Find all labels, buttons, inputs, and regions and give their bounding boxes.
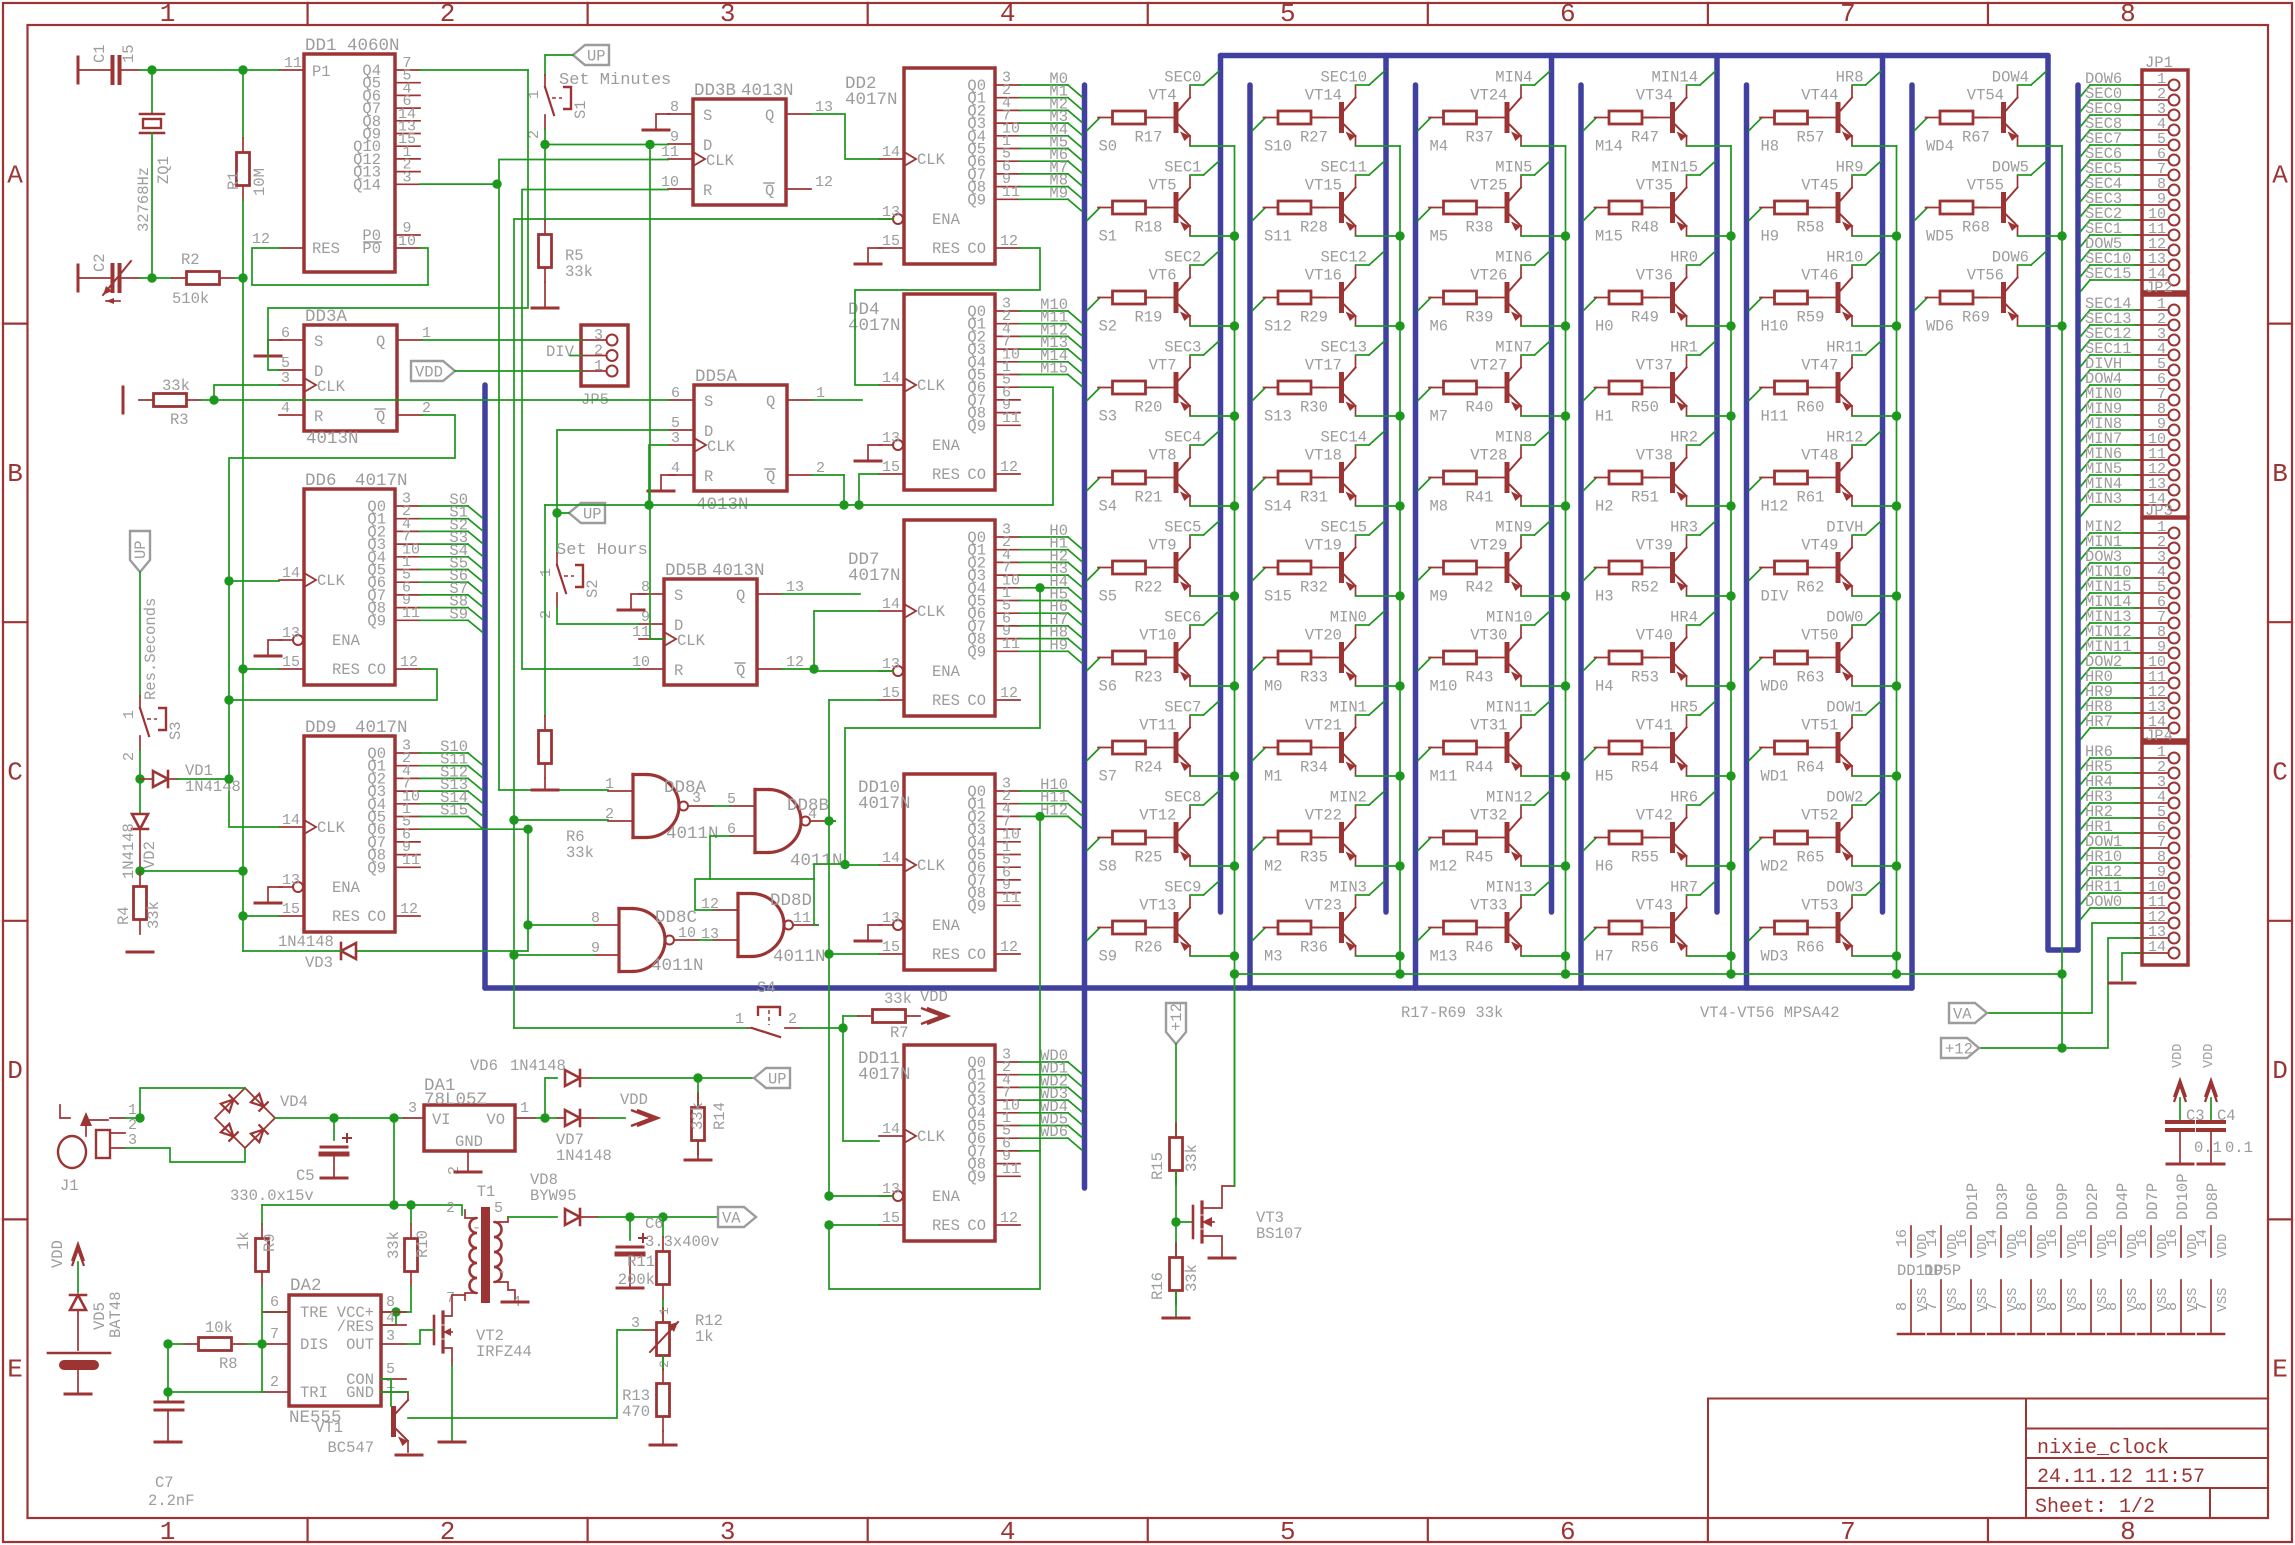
wire S4 pin1 to ENA rail bbox=[514, 1027, 747, 1029]
svg-text:R69: R69 bbox=[1962, 309, 1990, 327]
frame row label D left bbox=[3, 920, 28, 922]
junction on emitter rail column 3 row 3 bbox=[1561, 411, 1570, 420]
junction on emitter rail column 5 row 3 bbox=[1892, 411, 1901, 420]
bus vertical collector column 3 bbox=[1549, 56, 1555, 913]
svg-text:2: 2 bbox=[270, 1374, 279, 1391]
NAND gate DD8D 4011N bbox=[701, 891, 826, 967]
svg-text:VI: VI bbox=[432, 1111, 451, 1129]
svg-text:1: 1 bbox=[121, 710, 138, 719]
transistor VT1 BC547 bbox=[315, 1392, 408, 1457]
ground at DD2 RES pin bbox=[868, 248, 882, 262]
svg-text:R: R bbox=[314, 408, 323, 426]
svg-text:S3: S3 bbox=[1099, 408, 1118, 426]
svg-text:4011N: 4011N bbox=[773, 947, 826, 967]
transistor cell MIN7: resistor R40, transistor VT27, base net M7 bbox=[1418, 339, 1566, 426]
wire R16 to ground bbox=[1175, 1292, 1177, 1316]
svg-text:VT22: VT22 bbox=[1305, 807, 1342, 825]
svg-text:VT47: VT47 bbox=[1801, 357, 1838, 375]
svg-text:4017N: 4017N bbox=[355, 718, 408, 738]
svg-text:R26: R26 bbox=[1135, 939, 1163, 957]
svg-text:13: 13 bbox=[882, 430, 900, 447]
svg-text:R29: R29 bbox=[1300, 309, 1328, 327]
junction on emitter rail column 1 row 7 bbox=[1230, 771, 1239, 780]
svg-text:11: 11 bbox=[793, 910, 811, 927]
svg-text:Q9: Q9 bbox=[367, 859, 386, 877]
junction on emitter rail column 4 row 8 bbox=[1726, 861, 1735, 870]
svg-text:HR5: HR5 bbox=[1670, 699, 1698, 717]
wire VD3 to reset rail bbox=[243, 950, 341, 952]
svg-text:RES: RES bbox=[932, 946, 960, 964]
svg-text:R17: R17 bbox=[1135, 129, 1163, 147]
svg-text:D: D bbox=[2272, 1056, 2288, 1086]
junction on emitter rail column 5 row 4 bbox=[1892, 501, 1901, 510]
frame row label C right bbox=[2268, 621, 2292, 623]
svg-text:ENA: ENA bbox=[332, 879, 361, 897]
svg-text:8: 8 bbox=[2120, 0, 2136, 29]
wire DD5A R vertical to 505 net bbox=[843, 475, 845, 505]
svg-text:CO: CO bbox=[967, 946, 986, 964]
power pins unit DD9P bbox=[2044, 1183, 2081, 1334]
svg-text:MIN13: MIN13 bbox=[1486, 879, 1533, 897]
wire DD5B Qb to DD7 CLK bbox=[782, 611, 879, 669]
svg-text:R34: R34 bbox=[1300, 759, 1328, 777]
svg-text:H3: H3 bbox=[1595, 588, 1614, 606]
svg-text:P1: P1 bbox=[312, 63, 331, 81]
svg-text:H5: H5 bbox=[1595, 768, 1614, 786]
IC DD2 4017N counter bbox=[845, 68, 1082, 264]
power arrow VDD at R7 bbox=[921, 1008, 942, 1024]
svg-text:M0: M0 bbox=[1264, 678, 1283, 696]
ground at JP4 pin14 bbox=[2109, 982, 2135, 985]
emitter rail wire column 2 bbox=[1399, 146, 1401, 974]
svg-text:DD9P: DD9P bbox=[2054, 1183, 2072, 1220]
junction on emitter rail column 2 row 5 bbox=[1395, 591, 1404, 600]
junction on emitter rail column 3 row 7 bbox=[1561, 771, 1570, 780]
junction S4/R7 bbox=[838, 1023, 847, 1032]
wire 555 GND to VT1 collector bbox=[381, 1391, 408, 1393]
junction R14 top bbox=[693, 1073, 702, 1082]
svg-text:4: 4 bbox=[1000, 0, 1016, 29]
bus bottom horizontal bbox=[485, 985, 1912, 991]
svg-text:-: - bbox=[472, 1220, 481, 1237]
svg-text:12: 12 bbox=[252, 231, 270, 248]
svg-text:VT39: VT39 bbox=[1636, 537, 1673, 555]
svg-text:33k: 33k bbox=[689, 1102, 707, 1130]
transistor cell SEC2: resistor R19, transistor VT6, base net S2 bbox=[1087, 249, 1235, 336]
svg-text:R60: R60 bbox=[1797, 399, 1825, 417]
wire DD8A input1 bbox=[499, 789, 608, 791]
svg-text:UP: UP bbox=[583, 506, 602, 524]
wire DD6 CLK tap bbox=[229, 580, 279, 582]
svg-text:R58: R58 bbox=[1797, 219, 1825, 237]
svg-text:0.1: 0.1 bbox=[2225, 1139, 2253, 1157]
svg-text:SEC11: SEC11 bbox=[1320, 159, 1367, 177]
svg-text:S4: S4 bbox=[757, 979, 776, 997]
svg-text:3: 3 bbox=[402, 169, 411, 186]
junction rail R9 bbox=[389, 1200, 398, 1209]
wire DD7 Q4 to DD10 CLK bbox=[845, 588, 1040, 865]
svg-text:R37: R37 bbox=[1466, 129, 1494, 147]
transistor cell HR2: resistor R51, transistor VT38, base net H2 bbox=[1584, 429, 1732, 516]
wire DD5A Qb loop bbox=[812, 474, 844, 476]
svg-text:DD7P: DD7P bbox=[2144, 1183, 2162, 1220]
junction on emitter rail column 3 row 8 bbox=[1561, 861, 1570, 870]
svg-text:VT29: VT29 bbox=[1470, 537, 1507, 555]
svg-text:JP2: JP2 bbox=[2145, 279, 2173, 297]
svg-text:13: 13 bbox=[882, 910, 900, 927]
svg-text:14: 14 bbox=[282, 812, 300, 829]
svg-text:R55: R55 bbox=[1631, 849, 1659, 867]
junction DD6 CLK bbox=[224, 576, 233, 585]
bus vertical collector column 4 bbox=[1714, 56, 1720, 913]
svg-text:DD8D: DD8D bbox=[770, 891, 812, 911]
ground below C6 bbox=[617, 1287, 643, 1290]
transistor cell SEC7: resistor R24, transistor VT11, base net S7 bbox=[1087, 699, 1235, 786]
bus vertical signal column 5 bbox=[1744, 85, 1750, 988]
junction on emitter rail column 3 row 4 bbox=[1561, 501, 1570, 510]
svg-text:3: 3 bbox=[692, 790, 701, 807]
svg-text:CLK: CLK bbox=[917, 151, 946, 169]
connector JP1 bbox=[2081, 54, 2189, 292]
svg-text:S9: S9 bbox=[1099, 948, 1118, 966]
svg-text:M8: M8 bbox=[1430, 498, 1449, 516]
svg-text:33k: 33k bbox=[1183, 1264, 1201, 1292]
transistor cell MIN11: resistor R44, transistor VT31, base net M11 bbox=[1418, 699, 1566, 786]
wire DD4 RES bbox=[859, 474, 879, 505]
wire S1 pin2 down bbox=[544, 129, 546, 220]
svg-text:12: 12 bbox=[400, 654, 418, 671]
svg-text:HR11: HR11 bbox=[1826, 339, 1863, 357]
svg-text:14: 14 bbox=[2194, 1229, 2211, 1247]
svg-text:16: 16 bbox=[2074, 1229, 2091, 1247]
svg-text:1N4148: 1N4148 bbox=[278, 933, 334, 951]
junction on emitter rail column 2 row 7 bbox=[1395, 771, 1404, 780]
svg-text:1N4148: 1N4148 bbox=[510, 1057, 566, 1075]
svg-text:D: D bbox=[7, 1056, 23, 1086]
diode VD1 1N4148 bbox=[140, 762, 241, 796]
transistor cell SEC8: resistor R25, transistor VT12, base net S8 bbox=[1087, 789, 1235, 876]
svg-text:H9: H9 bbox=[1761, 228, 1780, 246]
wire vertical rail R2 down to DD6/DD9 bbox=[242, 278, 244, 951]
svg-text:CO: CO bbox=[967, 1217, 986, 1235]
svg-text:H10: H10 bbox=[1761, 318, 1789, 336]
svg-text:MIN3: MIN3 bbox=[1330, 879, 1367, 897]
svg-text:1: 1 bbox=[160, 1517, 176, 1545]
svg-text:Sheet: 1/2: Sheet: 1/2 bbox=[2035, 1496, 2155, 1519]
svg-text:S14: S14 bbox=[1264, 498, 1292, 516]
svg-text:16: 16 bbox=[1954, 1229, 1971, 1247]
svg-text:R61: R61 bbox=[1797, 489, 1825, 507]
resistor R10 33k bbox=[381, 1205, 432, 1312]
svg-text:11: 11 bbox=[284, 55, 302, 72]
potentiometer R12 1k bbox=[631, 1299, 723, 1370]
frame column label 4 bottom bbox=[867, 1518, 869, 1542]
wire DD5A CLK net bbox=[649, 445, 668, 505]
wire DD11 Q7 loop bbox=[1020, 1150, 1040, 1152]
svg-text:M13: M13 bbox=[1430, 948, 1458, 966]
svg-text:R9: R9 bbox=[261, 1233, 279, 1252]
svg-text:M6: M6 bbox=[1430, 318, 1449, 336]
svg-text:VT55: VT55 bbox=[1967, 177, 2004, 195]
junction on emitter rail column 4 row 2 bbox=[1726, 321, 1735, 330]
svg-text:R63: R63 bbox=[1797, 669, 1825, 687]
svg-text:+12: +12 bbox=[1945, 1041, 1973, 1059]
IC DD4 4017N counter bbox=[848, 294, 1082, 490]
svg-text:DD3B: DD3B bbox=[694, 81, 736, 101]
svg-text:14: 14 bbox=[882, 144, 900, 161]
junction DD7 Q4 bbox=[1035, 583, 1044, 592]
svg-text:11: 11 bbox=[1002, 184, 1020, 201]
svg-text:MIN6: MIN6 bbox=[1495, 249, 1532, 267]
frame row label D right bbox=[2268, 920, 2292, 922]
svg-text:S6: S6 bbox=[1099, 678, 1118, 696]
svg-text:DIV: DIV bbox=[546, 343, 575, 361]
svg-text:SEC14: SEC14 bbox=[1320, 429, 1367, 447]
svg-text:0.1: 0.1 bbox=[2194, 1139, 2222, 1157]
IC DD7 4017N counter bbox=[848, 520, 1082, 716]
transistor cell SEC12: resistor R29, transistor VT16, base net S12 bbox=[1253, 249, 1401, 336]
wire JP5 pin2 DIV stub bbox=[570, 355, 581, 357]
junction on emitter rail column 2 row 1 bbox=[1395, 231, 1404, 240]
connector JP3 bbox=[2081, 502, 2189, 740]
junction rail R10 bbox=[406, 1200, 415, 1209]
NAND gate DD8B 4011N bbox=[727, 790, 843, 872]
svg-text:S2: S2 bbox=[584, 579, 602, 598]
ground below R13 bbox=[650, 1444, 676, 1447]
junction emitter common bbox=[1726, 969, 1735, 978]
svg-text:MIN12: MIN12 bbox=[1486, 789, 1533, 807]
svg-text:330.0x15v: 330.0x15v bbox=[230, 1187, 314, 1205]
transistor cell MIN3: resistor R36, transistor VT23, base net M3 bbox=[1253, 879, 1401, 966]
wire DD8C out to DD8D in2 bbox=[699, 939, 713, 941]
wire C1 to DD1 P1 bbox=[140, 69, 279, 71]
svg-text:VT16: VT16 bbox=[1305, 267, 1342, 285]
svg-text:16: 16 bbox=[2014, 1229, 2031, 1247]
svg-text:C2: C2 bbox=[91, 253, 109, 272]
wire DD3B Q to DD2 CLK bbox=[811, 114, 879, 159]
svg-text:7: 7 bbox=[2194, 1302, 2211, 1311]
junction 844/505 bbox=[839, 500, 848, 509]
diode VD7 1N4148 bbox=[556, 1110, 612, 1165]
svg-text:B: B bbox=[7, 459, 23, 489]
svg-text:14: 14 bbox=[882, 596, 900, 613]
svg-text:Q: Q bbox=[765, 107, 774, 125]
svg-text:RES: RES bbox=[312, 240, 340, 258]
transistor cell MIN12: resistor R45, transistor VT32, base net M12 bbox=[1418, 789, 1566, 876]
ground at DD9 ENA pin bbox=[268, 887, 282, 901]
svg-text:DD3A: DD3A bbox=[305, 307, 348, 327]
wire 555 CON to VT1 base region bbox=[381, 1379, 391, 1406]
wire +12 to R15 bbox=[1175, 1044, 1177, 1136]
svg-text:DD5P: DD5P bbox=[1924, 1262, 1961, 1280]
junction on emitter rail column 2 row 3 bbox=[1395, 411, 1404, 420]
svg-text:VT34: VT34 bbox=[1636, 87, 1673, 105]
frame row label E right bbox=[2268, 1218, 2292, 1220]
svg-text:RES: RES bbox=[932, 466, 960, 484]
wire J1 to bridge top bbox=[140, 1088, 245, 1118]
svg-text:S: S bbox=[314, 333, 323, 351]
wire R12 wiper to VT1 emitter bbox=[408, 1330, 643, 1418]
svg-text:H4: H4 bbox=[1595, 678, 1614, 696]
transistor cell SEC11: resistor R28, transistor VT15, base net S11 bbox=[1253, 159, 1401, 246]
wire DD8A out to DD8B in1 bbox=[713, 805, 730, 807]
svg-text:4017N: 4017N bbox=[858, 1065, 911, 1085]
svg-text:S12: S12 bbox=[1264, 318, 1292, 336]
svg-text:H2: H2 bbox=[1595, 498, 1614, 516]
svg-text:CO: CO bbox=[367, 661, 386, 679]
frame column label 8 top bbox=[1987, 3, 1989, 25]
svg-text:R1: R1 bbox=[225, 171, 243, 190]
junction DD11 ENA bbox=[824, 1191, 833, 1200]
svg-text:VT21: VT21 bbox=[1305, 717, 1342, 735]
bus vertical signal column 2 bbox=[1247, 85, 1253, 988]
wire DD10 RES stub bbox=[829, 953, 879, 955]
svg-text:HR7: HR7 bbox=[2085, 713, 2113, 731]
frame row label B left bbox=[3, 323, 28, 325]
svg-text:VT42: VT42 bbox=[1636, 807, 1673, 825]
svg-text:VT13: VT13 bbox=[1139, 897, 1176, 915]
wire S1 to DD3B D bbox=[545, 144, 668, 146]
svg-text:14: 14 bbox=[882, 1121, 900, 1138]
wire OUT to VT2 gate bbox=[406, 1330, 434, 1344]
svg-text:GND: GND bbox=[346, 1384, 374, 1402]
svg-text:1N4148: 1N4148 bbox=[120, 823, 138, 879]
svg-text:H7: H7 bbox=[1595, 948, 1614, 966]
ground at VT3 source bbox=[1209, 1257, 1235, 1260]
junction on emitter rail column 3 row 6 bbox=[1561, 681, 1570, 690]
svg-text:7: 7 bbox=[1840, 0, 1856, 29]
svg-text:R64: R64 bbox=[1797, 759, 1825, 777]
svg-text:DOW1: DOW1 bbox=[1826, 699, 1863, 717]
svg-text:CO: CO bbox=[967, 240, 986, 258]
svg-text:R3: R3 bbox=[170, 411, 189, 429]
junction VD3 node bbox=[523, 825, 532, 834]
svg-text:M7: M7 bbox=[1430, 408, 1449, 426]
bus left vertical bbox=[482, 385, 488, 988]
svg-text:VT5: VT5 bbox=[1149, 177, 1177, 195]
ground below VT1 bbox=[396, 1454, 422, 1457]
junction on emitter rail column 1 row 1 bbox=[1230, 231, 1239, 240]
svg-text:CLK: CLK bbox=[707, 438, 736, 456]
junction R3 node bbox=[209, 395, 218, 404]
svg-text:VDD: VDD bbox=[620, 1091, 648, 1109]
svg-text:R32: R32 bbox=[1300, 579, 1328, 597]
svg-text:A: A bbox=[2272, 160, 2288, 190]
wire R15 to gate node bbox=[1175, 1172, 1177, 1255]
svg-text:C: C bbox=[7, 758, 23, 788]
svg-text:S9: S9 bbox=[449, 605, 468, 623]
svg-text:S3: S3 bbox=[167, 721, 185, 740]
svg-text:VT19: VT19 bbox=[1305, 537, 1342, 555]
svg-text:4013N: 4013N bbox=[306, 429, 359, 449]
svg-text:1k: 1k bbox=[235, 1231, 253, 1250]
power pins unit DD3P bbox=[1984, 1183, 2021, 1334]
transistor cell DOW6: resistor R69, transistor VT56, base net WD6 bbox=[1915, 249, 2063, 336]
junction R10/555 RES bbox=[391, 1307, 400, 1316]
svg-text:R53: R53 bbox=[1631, 669, 1659, 687]
svg-text:R11: R11 bbox=[627, 1253, 655, 1271]
svg-text:8: 8 bbox=[2044, 1302, 2061, 1311]
svg-text:S8: S8 bbox=[1099, 858, 1118, 876]
svg-text:R36: R36 bbox=[1300, 939, 1328, 957]
svg-text:WD6: WD6 bbox=[1040, 1123, 1068, 1141]
junction DD8B out bbox=[824, 816, 833, 825]
junction on emitter rail column 2 row 2 bbox=[1395, 321, 1404, 330]
svg-text:Q: Q bbox=[766, 393, 775, 411]
svg-text:VT1: VT1 bbox=[315, 1419, 343, 1437]
svg-text:R59: R59 bbox=[1797, 309, 1825, 327]
flag UP middle bbox=[569, 503, 605, 523]
svg-text:UP: UP bbox=[132, 540, 150, 559]
svg-text:VT49: VT49 bbox=[1801, 537, 1838, 555]
wire S2 net to DD5A D bbox=[557, 430, 668, 513]
wire DA1 VO bbox=[535, 1117, 558, 1119]
svg-text:H12: H12 bbox=[1761, 498, 1789, 516]
bus vertical collector column 5 bbox=[1880, 56, 1886, 913]
svg-text:VD3: VD3 bbox=[305, 954, 333, 972]
wire VD6 to UP flag bbox=[590, 1077, 754, 1079]
svg-text:1N4148: 1N4148 bbox=[556, 1147, 612, 1165]
junction DD8C input1 tap bbox=[523, 920, 532, 929]
svg-text:4: 4 bbox=[1000, 1517, 1016, 1545]
svg-text:S5: S5 bbox=[1099, 588, 1118, 606]
svg-text:7: 7 bbox=[446, 1290, 455, 1307]
svg-text:VT14: VT14 bbox=[1305, 87, 1342, 105]
IC DD11 4017N counter bbox=[858, 1045, 1082, 1241]
svg-text:R67: R67 bbox=[1962, 129, 1990, 147]
svg-text:H8: H8 bbox=[1761, 138, 1780, 156]
junction ZQ1 bottom bbox=[147, 273, 156, 282]
wire DD9 RES bbox=[243, 915, 279, 917]
svg-text:CLK: CLK bbox=[917, 377, 946, 395]
svg-text:3.3x400v: 3.3x400v bbox=[645, 1233, 719, 1251]
svg-text:MIN0: MIN0 bbox=[1330, 609, 1367, 627]
svg-text:B: B bbox=[2272, 459, 2288, 489]
svg-text:8: 8 bbox=[1954, 1302, 1971, 1311]
svg-text:CLK: CLK bbox=[917, 1128, 946, 1146]
svg-text:VT20: VT20 bbox=[1305, 627, 1342, 645]
svg-text:Q14: Q14 bbox=[353, 176, 381, 194]
svg-text:32768Hz: 32768Hz bbox=[135, 167, 153, 232]
junction DD8A input2 tap bbox=[509, 815, 518, 824]
svg-text:11: 11 bbox=[1002, 1161, 1020, 1178]
svg-text:MIN15: MIN15 bbox=[1651, 159, 1698, 177]
frame row label B right bbox=[2268, 323, 2292, 325]
svg-text:HR10: HR10 bbox=[1826, 249, 1863, 267]
junction VD1 anode bbox=[135, 774, 144, 783]
capacitor C3 0.1 bbox=[2167, 1098, 2222, 1162]
capacitor C7 2.2nF bbox=[148, 1402, 195, 1510]
junction DD9 CLK rail VD1 bbox=[224, 774, 233, 783]
transistor cell SEC3: resistor R20, transistor VT7, base net S3 bbox=[1087, 339, 1235, 426]
svg-text:CLK: CLK bbox=[677, 632, 706, 650]
svg-text:R56: R56 bbox=[1631, 939, 1659, 957]
svg-text:1: 1 bbox=[735, 1011, 744, 1028]
svg-text:VSS: VSS bbox=[2216, 1288, 2231, 1312]
svg-text:MIN2: MIN2 bbox=[1330, 789, 1367, 807]
svg-text:HR3: HR3 bbox=[1670, 519, 1698, 537]
svg-text:2: 2 bbox=[657, 1360, 672, 1368]
svg-text:6: 6 bbox=[1560, 0, 1576, 29]
svg-text:VDD: VDD bbox=[2216, 1234, 2231, 1258]
svg-text:ENA: ENA bbox=[932, 1188, 961, 1206]
svg-text:R30: R30 bbox=[1300, 399, 1328, 417]
transformer T1 bbox=[446, 1183, 521, 1311]
svg-text:/RES: /RES bbox=[337, 1318, 374, 1336]
junction on emitter rail column 5 row 2 bbox=[1892, 321, 1901, 330]
svg-text:33k: 33k bbox=[884, 990, 912, 1008]
svg-text:JP3: JP3 bbox=[2145, 502, 2173, 520]
